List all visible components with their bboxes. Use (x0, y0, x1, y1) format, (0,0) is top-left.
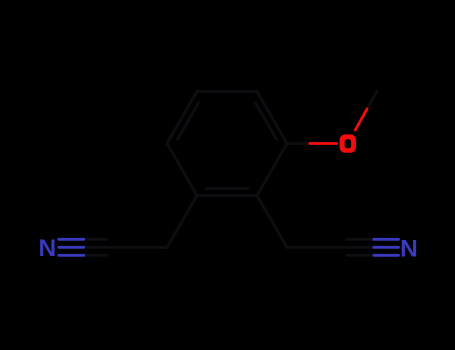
svg-text:N: N (400, 235, 418, 262)
svg-text:N: N (38, 235, 56, 262)
